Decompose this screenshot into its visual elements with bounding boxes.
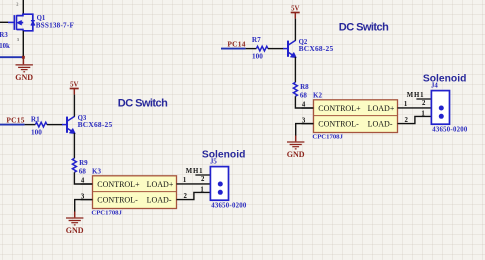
port PC15: [0, 115, 25, 124]
svg-text:2: 2: [422, 100, 426, 107]
wire: [177, 183, 221, 185]
svg-text:2: 2: [16, 1, 18, 6]
svg-text:GND: GND: [287, 150, 305, 159]
svg-text:R1: R1: [31, 115, 40, 123]
svg-text:R7: R7: [252, 36, 261, 44]
svg-text:R9: R9: [79, 159, 88, 167]
svg-text:2: 2: [183, 193, 187, 200]
svg-text:5V: 5V: [291, 6, 299, 13]
wire: [294, 57, 296, 82]
relay K3: [81, 168, 188, 217]
transistor Q3: [62, 115, 113, 133]
svg-text:R3: R3: [0, 32, 8, 39]
wire: [22, 31, 24, 57]
wire: [74, 172, 92, 184]
svg-text:DC Switch: DC Switch: [339, 21, 389, 33]
svg-text:LOAD-: LOAD-: [147, 196, 172, 205]
wire: [73, 133, 75, 158]
svg-text:Solenoid: Solenoid: [202, 149, 245, 160]
power 5V: [291, 6, 300, 19]
svg-text:R8: R8: [300, 83, 309, 91]
svg-text:CONTROL+: CONTROL+: [318, 104, 361, 113]
resistor R3: [0, 32, 10, 50]
svg-text:CONTROL-: CONTROL-: [97, 196, 138, 205]
svg-text:10k: 10k: [0, 43, 10, 50]
svg-text:2: 2: [201, 176, 205, 183]
svg-text:K2: K2: [313, 92, 322, 100]
svg-text:68: 68: [300, 91, 308, 99]
resistor R9: [72, 158, 88, 175]
svg-text:68: 68: [79, 167, 87, 175]
resistor R8: [293, 82, 309, 99]
svg-text:BSS138-7-F: BSS138-7-F: [36, 22, 75, 30]
wire: [398, 116, 442, 123]
svg-text:BCX68-25: BCX68-25: [299, 44, 334, 53]
svg-text:LOAD+: LOAD+: [147, 180, 174, 189]
svg-text:PC14: PC14: [227, 39, 245, 48]
resistor R1: [31, 115, 47, 136]
svg-text:100: 100: [252, 53, 263, 61]
svg-text:CONTROL+: CONTROL+: [97, 180, 140, 189]
resistor R7: [252, 36, 268, 61]
svg-text:CONTROL-: CONTROL-: [318, 120, 359, 129]
svg-text:LOAD+: LOAD+: [368, 104, 395, 113]
svg-text:K3: K3: [92, 168, 101, 176]
pin MH1: [186, 168, 211, 175]
power 5V: [70, 82, 79, 95]
svg-text:5V: 5V: [70, 82, 78, 89]
svg-text:1: 1: [421, 110, 425, 117]
node junction: [22, 56, 25, 59]
svg-text:CPC1708J: CPC1708J: [91, 210, 122, 217]
wire: [177, 192, 221, 199]
wire: [22, 0, 24, 14]
svg-text:43650-0200: 43650-0200: [432, 127, 468, 134]
label Solenoid: [423, 73, 466, 84]
wire: [25, 124, 36, 126]
wire: [47, 124, 63, 126]
svg-text:GND: GND: [66, 226, 84, 235]
svg-text:LOAD-: LOAD-: [368, 120, 393, 129]
svg-text:CPC1708J: CPC1708J: [312, 134, 343, 141]
label Solenoid: [202, 149, 245, 160]
wire: [73, 95, 75, 117]
svg-text:1: 1: [200, 186, 204, 193]
wire: [246, 48, 257, 50]
label DC Switch: [118, 97, 168, 109]
svg-text:3: 3: [17, 37, 20, 42]
wire: [398, 107, 442, 109]
svg-text:BCX68-25: BCX68-25: [78, 120, 113, 129]
wire: [75, 200, 93, 212]
ground: [66, 212, 84, 235]
wire: [295, 96, 313, 108]
transistor Q2: [283, 39, 334, 57]
wire: [296, 124, 314, 136]
svg-text:MH1: MH1: [186, 168, 204, 175]
wire: [294, 19, 296, 41]
svg-text:43650-0200: 43650-0200: [211, 203, 247, 210]
svg-text:1: 1: [183, 177, 187, 184]
svg-text:2: 2: [404, 117, 408, 124]
connector J5: [200, 158, 247, 209]
port PC14: [221, 39, 246, 48]
label DC Switch: [339, 21, 389, 33]
svg-text:DC Switch: DC Switch: [118, 97, 168, 109]
svg-text:PC15: PC15: [6, 115, 24, 124]
connector J4: [421, 82, 468, 133]
transistor Q1: [8, 1, 74, 42]
svg-text:100: 100: [31, 128, 42, 136]
svg-text:GND: GND: [15, 73, 33, 82]
svg-text:Solenoid: Solenoid: [423, 73, 466, 84]
pin MH1: [407, 92, 432, 99]
svg-text:1: 1: [404, 101, 408, 108]
relay K2: [302, 92, 409, 141]
wire: [0, 21, 8, 23]
svg-text:MH1: MH1: [407, 92, 425, 99]
ground: [15, 57, 33, 82]
wire: [0, 56, 23, 58]
ground: [287, 136, 305, 159]
wire: [268, 48, 284, 50]
